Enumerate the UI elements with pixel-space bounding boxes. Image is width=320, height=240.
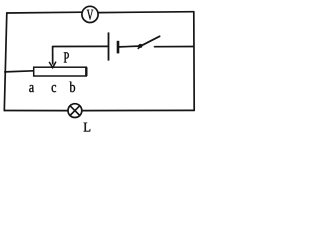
wire switch to right border — [155, 46, 194, 48]
wire middle: slider to battery — [53, 45, 108, 47]
wire battery to switch — [119, 45, 138, 48]
label b — [70, 82, 76, 93]
wire right border — [193, 12, 195, 111]
voltmeter dial letter V — [87, 10, 94, 20]
wire rheostat feed from left border — [5, 71, 34, 72]
switch blade tail — [138, 46, 141, 49]
label P — [64, 52, 69, 62]
wire bottom-left segment — [4, 110, 68, 112]
wire bottom-right segment — [82, 109, 194, 111]
rheostat R (slide-wire box, terminals a-b, tap c) — [34, 67, 87, 76]
wire left border — [4, 13, 7, 111]
switch pivot dot — [138, 44, 142, 48]
label c — [52, 85, 56, 92]
battery cell: short thick plate — [117, 41, 120, 54]
label a — [29, 85, 34, 92]
rheostat slider P (wiper arrow) — [49, 47, 55, 68]
switch blade — [140, 36, 160, 46]
battery cell: long plate — [108, 32, 110, 60]
lamp L (bulb symbol) — [68, 104, 82, 118]
wire top-right segment — [98, 11, 194, 14]
voltmeter V — [82, 6, 98, 22]
label L — [84, 123, 91, 132]
wire top-left segment — [7, 11, 82, 14]
